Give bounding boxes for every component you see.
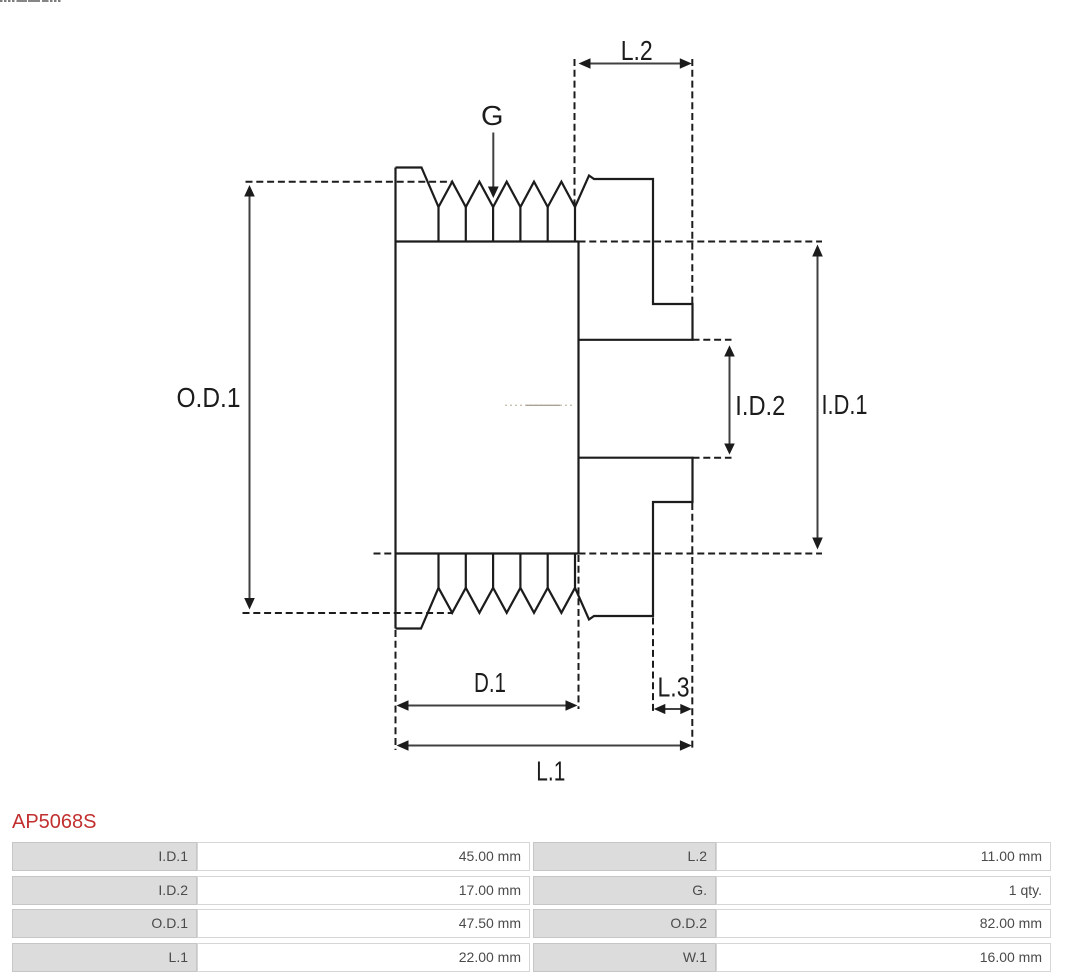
L.3 dimension line — [663, 708, 682, 710]
dashed left vertical — [395, 630, 397, 750]
faint centerline — [505, 404, 574, 406]
groove base top — [396, 240, 579, 242]
arrowheads L.3 — [654, 704, 666, 714]
left edge — [394, 168, 396, 629]
groove base bottom — [396, 552, 579, 554]
svg-text:L.3: L.3 — [658, 672, 690, 703]
arrowheads D.1 — [397, 700, 409, 711]
G leader line — [492, 133, 494, 190]
svg-text:D.1: D.1 — [474, 667, 506, 698]
data table — [12, 842, 197, 871]
right edge — [577, 242, 579, 554]
pulley outline top — [396, 168, 693, 340]
svg-text:L.2: L.2 — [621, 35, 653, 66]
L.1 dimension line — [406, 745, 682, 747]
svg-text:I.D.2: I.D.2 — [735, 390, 785, 421]
dashed L2 right vertical upper — [691, 59, 693, 303]
I.D.2 dimension line — [729, 354, 731, 446]
L.2 dimension line — [588, 63, 682, 65]
dashed L1 right vertical lower — [691, 503, 693, 750]
dashed ID2 bottom — [693, 457, 732, 459]
I.D.1 dimension line — [817, 254, 819, 540]
arrowheads I.D.2 — [724, 345, 735, 356]
dashed ID2 top — [693, 339, 732, 341]
arrowheads I.D.1 — [812, 245, 823, 257]
svg-text:L.1: L.1 — [536, 756, 565, 787]
dashed OD1 bottom — [243, 612, 453, 614]
D.1 dimension line — [406, 705, 568, 707]
bottom stems — [437, 554, 439, 588]
top stems — [437, 207, 439, 242]
arrowheads L.1 — [397, 740, 409, 751]
dashed ID1 bottom right — [579, 553, 823, 555]
svg-text:I.D.1: I.D.1 — [822, 389, 868, 420]
dashed OD1 top — [246, 181, 453, 183]
dashed L3 left vertical — [652, 618, 654, 714]
arrowheads O.D.1 — [244, 185, 255, 197]
O.D.1 dimension line — [249, 194, 251, 600]
arrowheads L.2 — [579, 58, 591, 69]
dashed ID1 top — [579, 241, 823, 243]
arrowhead G — [488, 187, 499, 199]
pulley outline bottom — [396, 458, 693, 629]
dashed ID1 bottom left — [374, 553, 396, 555]
svg-text:O.D.1: O.D.1 — [177, 382, 241, 413]
dashed L2 left vertical — [574, 59, 576, 205]
top-left cropped logo strip — [0, 0, 63, 2]
dashed D1 right vertical — [578, 555, 580, 709]
svg-text:G: G — [481, 100, 504, 131]
